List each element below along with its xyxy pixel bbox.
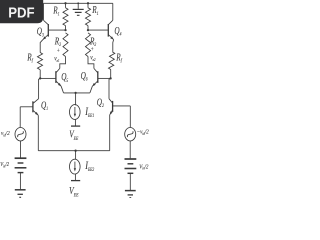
svg-text:Q1: Q1: [41, 99, 48, 111]
svg-text:PDF: PDF: [8, 4, 35, 21]
svg-text:R2: R2: [54, 35, 62, 47]
svg-text:Rf: Rf: [115, 51, 122, 63]
svg-text:VEE: VEE: [69, 186, 79, 198]
svg-text:R1: R1: [91, 4, 98, 16]
svg-text:Q6: Q6: [81, 70, 89, 82]
svg-text:Q5: Q5: [61, 71, 69, 83]
svg-text:vo2: vo2: [90, 54, 95, 62]
svg-text:Q4: Q4: [114, 25, 122, 37]
svg-text:IEE2: IEE2: [84, 160, 94, 173]
svg-text:Q2: Q2: [97, 96, 105, 109]
svg-text:VEE: VEE: [69, 128, 78, 141]
svg-text:IEE1: IEE1: [84, 106, 94, 119]
svg-text:−vid/2: −vid/2: [137, 129, 149, 136]
svg-text:Vin/2: Vin/2: [0, 162, 9, 169]
svg-text:+: +: [91, 46, 94, 53]
svg-text:R1: R1: [52, 4, 59, 16]
svg-text:vo1: vo1: [54, 55, 59, 63]
svg-text:+: +: [57, 48, 60, 55]
svg-text:Vin/2: Vin/2: [139, 164, 148, 171]
svg-text:Rf: Rf: [26, 51, 33, 63]
svg-text:Q3: Q3: [37, 25, 45, 37]
svg-text:vid/2: vid/2: [1, 131, 10, 138]
